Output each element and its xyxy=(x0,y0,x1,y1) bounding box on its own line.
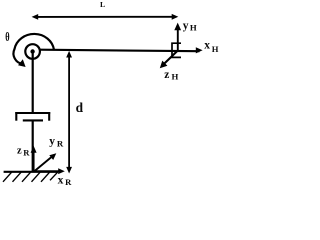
pulley circle xyxy=(25,44,40,59)
svg-text:H: H xyxy=(172,72,179,82)
right-angle bracket at H origin xyxy=(172,43,181,57)
axis z_R xyxy=(31,146,37,172)
rope vertical wire xyxy=(32,53,34,113)
svg-text:R: R xyxy=(65,177,72,187)
svg-text:H: H xyxy=(190,22,197,32)
rotation arc theta around pulley xyxy=(13,34,54,64)
svg-text:y: y xyxy=(183,20,189,32)
lower rod wire xyxy=(32,120,34,172)
axis x_R xyxy=(34,168,65,174)
svg-text:x: x xyxy=(204,40,210,52)
svg-text:y: y xyxy=(49,136,55,148)
svg-text:θ: θ xyxy=(5,30,10,44)
axis z_H xyxy=(160,51,178,69)
svg-text:H: H xyxy=(212,44,219,54)
rope horizontal wire xyxy=(40,50,200,52)
svg-text:z: z xyxy=(164,69,169,81)
dimension d arrow xyxy=(66,51,72,174)
axis y_R xyxy=(34,153,56,171)
pulley center pin xyxy=(30,49,34,53)
prismatic joint xyxy=(15,112,50,121)
svg-text:L: L xyxy=(100,0,105,9)
svg-text:R: R xyxy=(23,147,30,157)
ground line xyxy=(4,171,59,173)
dimension L arrow xyxy=(32,14,179,20)
ground hatching xyxy=(3,172,58,182)
svg-text:R: R xyxy=(57,138,64,148)
rotation arrowhead xyxy=(18,59,26,67)
svg-text:d: d xyxy=(76,100,84,115)
axis x_H arrowhead xyxy=(196,47,203,53)
svg-text:z: z xyxy=(17,145,22,156)
svg-text:x: x xyxy=(58,174,64,186)
axis y_H xyxy=(174,23,181,52)
